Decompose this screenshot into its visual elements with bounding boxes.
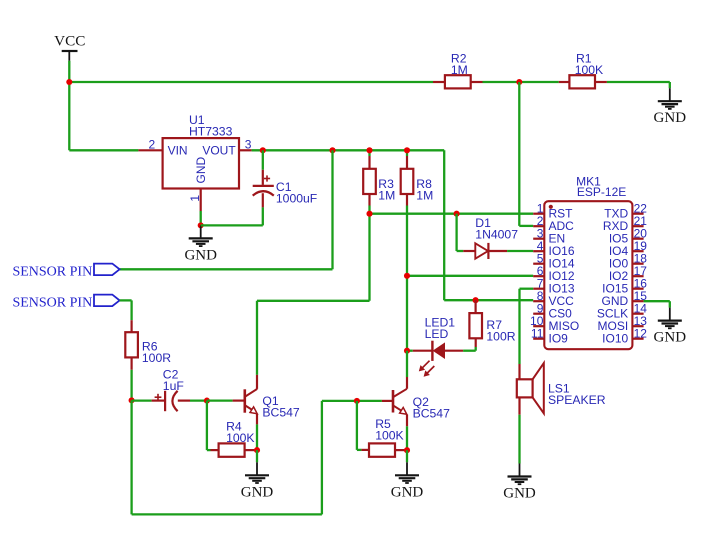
wire R1 to ground [607,82,670,88]
pin 12 IO10 [602,326,647,345]
pin 10 MISO [530,314,579,333]
node R8 top junction [404,147,410,153]
wire Q1 emitter to ground [256,450,258,462]
wire sensor pin 1 to VOUT rail [120,150,333,269]
wire R8 junction down to LED and Q2 collector [406,276,408,351]
pin 8 VCC [533,289,574,308]
resistor R3 1M [363,150,395,213]
wire VOUT rail down to ESP VCC pin [444,150,533,300]
svg-text:100K: 100K [575,63,603,77]
svg-text:BC547: BC547 [413,407,450,421]
node C1 junction [260,147,266,153]
transistor Q2 BC547 [357,351,450,451]
speaker LS1 [517,363,606,463]
node U1 ground junction [198,222,204,228]
svg-text:GND: GND [654,330,687,346]
node VCC-rail junction [66,79,72,85]
svg-text:1M: 1M [416,188,433,202]
pin 3 EN [533,226,565,245]
svg-text:IO9: IO9 [549,332,569,346]
node sensor-1 riser junction [329,147,335,153]
svg-text:100R: 100R [142,351,171,365]
svg-text:1: 1 [188,195,202,202]
ground under Q2 [391,462,424,500]
node R8 / Q2 collector junction [404,273,410,279]
resistor R7 100R [469,300,515,351]
pin 22 TXD [604,201,647,220]
resistor R4 100K [207,401,257,457]
svg-text:VOUT: VOUT [202,144,236,158]
svg-text:100K: 100K [226,431,254,445]
ground under Q1 [241,462,274,500]
svg-text:VIN: VIN [168,144,188,158]
pin 14 SCLK [597,301,647,320]
svg-text:GND: GND [503,486,536,502]
wire R8 bottom to IO12 [407,275,533,277]
svg-text:SENSOR PIN: SENSOR PIN [12,295,92,310]
pin 1 RST [533,201,573,220]
node Q1 emitter / R4 junction [254,447,260,453]
svg-text:GND: GND [184,247,217,263]
svg-text:1uF: 1uF [163,379,184,393]
svg-text:2: 2 [149,138,156,152]
wire RST line (R3 bottom to ESP RST) [370,213,534,215]
node C2/Q1-base/R4 junction [204,398,210,404]
pin 6 IO12 [533,264,575,283]
resistor R8 1M [401,150,434,275]
wire R2 to R1 [483,81,559,83]
svg-text:VCC: VCC [54,33,85,50]
svg-text:GND: GND [241,484,274,500]
pin 18 IO0 [609,251,647,270]
pin 13 MOSI [598,314,648,333]
pin 7 IO13 [533,276,575,295]
svg-text:100R: 100R [486,329,515,343]
ic MK1 ESP-12E [544,175,632,350]
capacitor C1 1000uF [201,150,318,225]
node R3 top junction [366,147,372,153]
svg-text:1M: 1M [378,188,395,202]
pin 16 IO15 [602,276,647,295]
resistor R5 100K [357,401,407,457]
pin 15 GND [602,289,648,308]
svg-text:GND: GND [194,157,208,184]
led LED1 [407,316,476,377]
resistor R2 [433,51,483,88]
pin 4 IO16 [533,239,575,258]
wire sensor pin 2 to R6 [120,300,132,320]
wire ESP GND pin to ground [644,301,670,307]
pin 5 IO14 [533,251,575,270]
pin flag SENSOR PIN 2 [12,295,119,311]
svg-text:SPEAKER: SPEAKER [548,393,606,407]
svg-text:11: 11 [531,326,544,340]
svg-text:100K: 100K [375,429,403,443]
node diode branch junction [454,211,460,217]
svg-text:IO10: IO10 [602,332,628,346]
wire C2 junction to Q2 base (bottom run) [132,400,357,514]
ground under R1 [654,88,687,126]
node R3 bottom junction [366,211,372,217]
pin 2 ADC [533,214,574,233]
wire divider junction down to ADC pin [519,82,533,226]
pin 21 RXD [603,214,647,233]
capacitor C2 1uF [132,367,207,411]
pin flag SENSOR PIN 1 [12,264,119,280]
pin 9 CS0 [533,301,572,320]
wire Q1 collector to R3 [257,214,370,375]
wire Q2 emitter to ground [406,450,408,462]
wire VOUT rail [252,149,445,151]
svg-text:LED: LED [425,327,449,341]
pin 17 IO2 [609,264,647,283]
diode D1 1N4007 [457,214,534,259]
ground under U1 [184,225,217,263]
node R6/C2 junction [129,397,135,403]
transistor Q1 BC547 [207,375,300,450]
node Q2 emitter / R5 junction [404,447,410,453]
svg-text:BC547: BC547 [262,406,299,420]
svg-text:12: 12 [634,326,648,340]
svg-text:1000uF: 1000uF [276,192,317,206]
node Q2 base junction [354,398,360,404]
svg-text:SENSOR PIN: SENSOR PIN [12,264,92,279]
node LED / Q2 collector junction [404,348,410,354]
wire VCC rail: down from VCC and across the top [69,61,433,151]
svg-text:1M: 1M [451,63,468,77]
wire VCC vertical to VIN [69,149,138,151]
ground under speaker [503,464,536,502]
pin 20 IO5 [609,226,647,245]
resistor R1 [559,51,607,88]
ground under ESP [654,308,687,346]
svg-text:HT7333: HT7333 [189,125,233,139]
node R7 top junction [473,297,479,303]
power symbol VCC [54,33,85,61]
svg-text:ESP-12E: ESP-12E [577,185,626,199]
svg-text:1N4007: 1N4007 [475,228,518,242]
svg-text:GND: GND [654,110,687,126]
voltage regulator U1 HT7333 [138,113,251,225]
wire ESP IO13 to speaker [520,289,534,364]
node R2/R1 divider junction [516,79,522,85]
resistor R6 100R [125,320,171,400]
svg-text:GND: GND [391,484,424,500]
pin 11 IO9 [531,326,568,345]
pin 19 IO4 [609,239,647,258]
svg-text:3: 3 [245,138,252,152]
